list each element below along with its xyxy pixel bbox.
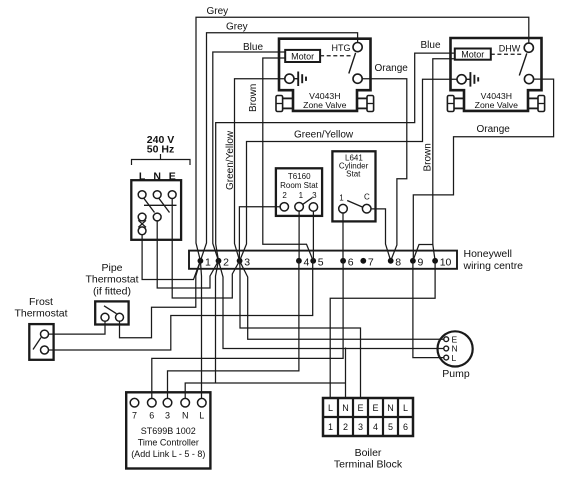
wire orange DHW valve switch to terminal 9 xyxy=(413,79,554,261)
valve1 earth symbol xyxy=(294,72,306,87)
time controller ST699B xyxy=(126,392,210,468)
wire blue HTG motor to terminal 2 xyxy=(213,52,285,261)
wiring centre label xyxy=(463,248,524,272)
svg-text:L: L xyxy=(199,411,204,421)
pump labels xyxy=(442,335,470,381)
wire brown DHW motor to terminals 9-10 link xyxy=(433,59,455,245)
svg-text:7: 7 xyxy=(132,411,137,421)
svg-text:DHW: DHW xyxy=(499,44,521,54)
svg-text:Blue: Blue xyxy=(421,40,441,51)
svg-text:wiring centre: wiring centre xyxy=(463,260,524,272)
room stat T6160 xyxy=(276,168,322,216)
svg-text:Orange: Orange xyxy=(375,63,409,74)
svg-text:N: N xyxy=(387,403,394,413)
valve2 motor linkage dashed xyxy=(491,53,522,55)
pump xyxy=(438,331,473,366)
wire mains N to terminal 2 xyxy=(157,221,218,288)
wire controller N via terminal 2 to boiler N xyxy=(185,261,345,399)
valve1 earth terminal xyxy=(285,74,294,83)
svg-text:4: 4 xyxy=(304,256,310,268)
svg-text:Terminal Block: Terminal Block xyxy=(334,459,403,471)
pipe thermostat xyxy=(95,301,128,324)
svg-text:L: L xyxy=(403,403,408,413)
svg-text:ST699B 1002: ST699B 1002 xyxy=(141,426,196,436)
valve1 motor linkage dashed xyxy=(320,55,350,57)
svg-text:2: 2 xyxy=(343,422,348,432)
svg-text:Grey: Grey xyxy=(207,6,229,17)
svg-text:Grey: Grey xyxy=(226,22,248,33)
svg-text:N: N xyxy=(153,171,161,183)
svg-text:E: E xyxy=(169,171,176,183)
mains supply box xyxy=(131,180,181,240)
svg-text:E: E xyxy=(357,403,363,413)
wire grey to HTG valve switch xyxy=(200,33,357,261)
wire mains E to terminal 3 xyxy=(172,199,239,299)
svg-text:(if fitted): (if fitted) xyxy=(93,286,131,298)
honeywell wiring centre strip xyxy=(189,251,457,269)
svg-text:Zone Valve: Zone Valve xyxy=(475,100,518,110)
svg-text:10: 10 xyxy=(440,256,452,268)
valve2 earth terminal xyxy=(457,75,466,84)
svg-text:Frost: Frost xyxy=(29,296,53,308)
valve1 switch blade xyxy=(349,53,356,74)
svg-text:N: N xyxy=(342,403,349,413)
wire terminal 3 to boiler E xyxy=(240,261,361,398)
zone valve V4043H DHW (U2) xyxy=(447,38,544,112)
wire room stat 3 to terminal 5 xyxy=(312,211,314,261)
wire blue DHW motor to terminal 2 xyxy=(216,53,455,261)
svg-text:1: 1 xyxy=(328,422,333,432)
svg-text:4: 4 xyxy=(373,422,378,432)
svg-text:C: C xyxy=(364,193,370,202)
wire green/yellow DHW valve earth to terminal 3 xyxy=(240,79,457,260)
svg-text:Honeywell: Honeywell xyxy=(464,248,512,260)
svg-text:Boiler: Boiler xyxy=(355,447,382,459)
mains brace xyxy=(132,154,191,165)
svg-text:3: 3 xyxy=(358,422,363,432)
svg-text:L: L xyxy=(139,171,146,183)
wire terminal 3 to pump E xyxy=(240,261,444,339)
svg-text:9: 9 xyxy=(418,256,424,268)
wire room stat 1 to terminal 4 xyxy=(298,211,300,261)
wire brown HTG motor to terminal 5 xyxy=(263,58,313,261)
pipe thermostat label xyxy=(85,262,138,298)
svg-text:Brown: Brown xyxy=(423,143,434,171)
frost thermostat xyxy=(29,324,53,360)
svg-text:6: 6 xyxy=(149,411,154,421)
svg-text:1: 1 xyxy=(339,193,344,202)
svg-text:E: E xyxy=(372,403,378,413)
svg-text:5: 5 xyxy=(318,256,324,268)
svg-text:(Add Link L - 5 - 8): (Add Link L - 5 - 8) xyxy=(131,449,205,459)
svg-text:50 Hz: 50 Hz xyxy=(147,144,174,156)
wire cylinder stat C to terminal 8 xyxy=(371,209,391,261)
cylinder stat L641 xyxy=(332,151,375,221)
svg-text:2: 2 xyxy=(282,191,287,200)
terminals 1-10 dots and numbers xyxy=(198,256,452,268)
wire terminal 4 to controller 3 xyxy=(168,261,299,399)
mains labels 240V 50Hz L N E xyxy=(139,134,176,183)
svg-text:Pump: Pump xyxy=(442,368,470,380)
wire orange HTG valve switch to terminal 8 xyxy=(362,79,407,261)
svg-text:Brown: Brown xyxy=(248,84,259,112)
cylinder stat labels xyxy=(339,154,370,203)
valve2 earth symbol xyxy=(466,72,478,87)
wire terminal 10 to boiler L xyxy=(330,261,435,398)
wire mains L to terminal 1 xyxy=(142,235,200,280)
svg-text:HTG: HTG xyxy=(332,43,351,53)
svg-text:5: 5 xyxy=(388,422,393,432)
svg-text:L: L xyxy=(328,403,333,413)
svg-text:3: 3 xyxy=(165,411,170,421)
svg-text:Stat: Stat xyxy=(346,170,361,179)
valve2 switch terminal top xyxy=(524,43,533,52)
svg-text:3: 3 xyxy=(244,256,250,268)
svg-text:8: 8 xyxy=(395,256,401,268)
wire terminal 1 to controller L xyxy=(200,261,201,399)
svg-text:2: 2 xyxy=(223,256,229,268)
link terminal 9 to 10 xyxy=(413,245,435,261)
wire room stat 2 to terminal 3 xyxy=(239,207,280,261)
svg-text:Thermostat: Thermostat xyxy=(14,308,67,320)
svg-text:7: 7 xyxy=(368,256,374,268)
zone valve V4043H HTG (U1) xyxy=(276,39,374,112)
valve2 switch terminal bottom xyxy=(524,75,533,84)
valve2 labels xyxy=(461,44,520,111)
svg-text:Orange: Orange xyxy=(477,124,511,135)
svg-text:Pipe: Pipe xyxy=(101,262,122,274)
wire pipe thermostat to frost thermostat xyxy=(49,321,106,334)
valve1 switch terminal bottom xyxy=(353,74,362,83)
svg-text:Motor: Motor xyxy=(291,51,314,61)
svg-text:L: L xyxy=(452,353,457,363)
svg-text:1: 1 xyxy=(205,256,211,268)
svg-text:Thermostat: Thermostat xyxy=(85,274,138,286)
wire terminal 9 to pump L xyxy=(413,261,444,358)
svg-text:3: 3 xyxy=(312,191,317,200)
wire green/yellow HTG valve earth to terminal 3 xyxy=(235,79,285,261)
wire terminal 6 to controller 6 xyxy=(152,261,343,399)
svg-text:N: N xyxy=(182,411,189,421)
boiler terminal block xyxy=(323,398,413,436)
svg-text:Green/Yellow: Green/Yellow xyxy=(225,130,236,190)
wire cylinder stat 1 to terminal 6 xyxy=(342,213,344,261)
svg-text:Zone Valve: Zone Valve xyxy=(303,100,346,110)
svg-text:6: 6 xyxy=(403,422,408,432)
frost thermostat label xyxy=(14,296,67,320)
room stat labels xyxy=(280,172,319,200)
valve1 switch terminal top xyxy=(353,43,362,52)
svg-text:Room Stat: Room Stat xyxy=(280,181,319,190)
svg-text:T6160: T6160 xyxy=(288,172,311,181)
svg-text:6: 6 xyxy=(348,256,354,268)
time controller labels xyxy=(131,411,205,460)
wire terminal 2 to pump N xyxy=(219,261,444,349)
valve2 switch blade xyxy=(519,53,527,75)
wire terminal 1 to pipe thermostat xyxy=(120,261,201,338)
svg-text:Blue: Blue xyxy=(243,42,263,53)
wire grey to DHW valve switch xyxy=(196,17,529,260)
boiler terminal labels xyxy=(328,403,408,432)
svg-text:Green/Yellow: Green/Yellow xyxy=(294,130,354,141)
wire frost thermostat to terminal 5 xyxy=(49,261,314,350)
svg-text:Time Controller: Time Controller xyxy=(138,438,199,448)
valve1 labels xyxy=(291,43,350,110)
boiler label xyxy=(334,447,403,471)
valve1 motor xyxy=(285,50,320,62)
valve2 motor xyxy=(455,49,491,60)
svg-text:1: 1 xyxy=(299,191,304,200)
svg-text:Motor: Motor xyxy=(461,50,484,60)
